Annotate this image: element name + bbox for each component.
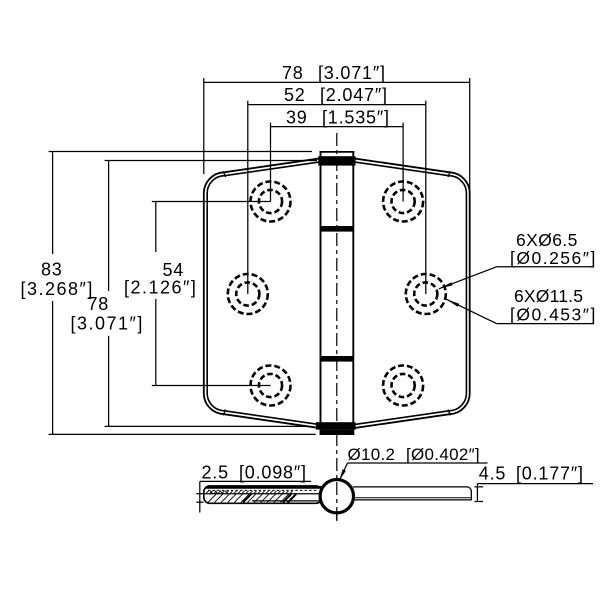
svg-text:78: 78 — [88, 294, 110, 314]
label diameter 10.2: arrow — [340, 469, 346, 480]
dimension 54: extension line bottom (to bottom-left hole) — [152, 385, 271, 387]
barrel bottom edge — [320, 433, 355, 435]
dimension 83: dimension line lower segment — [52, 301, 54, 434]
dimension 2.5: extension vertical — [199, 481, 201, 512]
svg-text:52: 52 — [284, 85, 306, 105]
side view left leaf hidden (dashed) line — [208, 489, 318, 491]
dimension 78 left: dimension line lower segment — [108, 336, 110, 426]
knuckle band bottom (narrow) — [321, 430, 354, 435]
hinge barrel left side — [320, 152, 322, 435]
hinge barrel right side — [352, 152, 354, 435]
svg-text:[Ø0.453″]: [Ø0.453″] — [510, 305, 597, 325]
dimension 83: dimension line upper segment — [52, 152, 54, 255]
label diameter 10.2: leader line — [340, 463, 348, 480]
svg-text:[0.177″]: [0.177″] — [516, 463, 584, 483]
svg-text:[3.268″]: [3.268″] — [21, 279, 94, 299]
hole top-left inner circle — [259, 190, 282, 213]
hole top-left outer circle — [251, 182, 291, 222]
label 6X diameter 11.5: underline — [497, 323, 595, 325]
dimension 2.5: underline — [200, 480, 311, 482]
dimension 83: extension line bottom — [49, 433, 316, 435]
label 6X diameter 6.5: underline — [497, 266, 595, 268]
side view right leaf — [353, 487, 471, 500]
side view left leaf section outline — [204, 486, 322, 503]
label 6X diameter 6.5: leader line — [439, 267, 497, 289]
hinge leaf outline outer right — [353, 158, 469, 428]
svg-text:[0.098″]: [0.098″] — [239, 462, 307, 482]
dimension 4.5: extension vertical — [476, 484, 478, 502]
svg-text:[3.071″]: [3.071″] — [318, 63, 386, 83]
pin centerline — [336, 133, 338, 523]
svg-text:[3.071″]: [3.071″] — [71, 313, 144, 333]
svg-text:6XØ11.5: 6XØ11.5 — [514, 286, 583, 306]
knuckle band bottom (wide) — [316, 422, 356, 429]
dimension 54: extension line top (to top-left hole) — [152, 201, 271, 203]
label 6X diameter 6.5: arrow — [439, 282, 453, 289]
hole middle-left inner circle — [236, 282, 259, 305]
svg-text:4.5: 4.5 — [479, 463, 506, 483]
edge tick bottom-left — [223, 410, 225, 416]
dimension 78 left: extension line top — [105, 160, 317, 162]
hinge leaf outline outer left — [204, 158, 321, 428]
dimension 39: extension line right (to top-right hole) — [402, 123, 404, 202]
hole bottom-right outer circle — [383, 366, 423, 406]
dimension 4.5: underline — [477, 483, 593, 485]
left leaf section hatching — [206, 491, 296, 503]
label 6X diameter 11.5: arrow — [446, 299, 459, 307]
side view right leaf inner bottom line — [354, 497, 470, 499]
svg-text:[2.047″]: [2.047″] — [320, 85, 388, 105]
dimension 78 left: extension line bottom — [105, 425, 310, 427]
dimension 4.5: top tick — [475, 486, 484, 488]
dimension 39: extension line left (to top-left hole) — [270, 123, 272, 202]
side view left leaf inner bottom line — [252, 500, 321, 502]
dimension 52: extension line right (to middle-right hole) — [425, 101, 427, 294]
pin circle centerline redraw — [336, 482, 338, 521]
dimension 78 left: dimension line upper segment — [108, 161, 110, 292]
dimension 83: extension line top — [49, 151, 312, 153]
label 6X diameter 11.5: leader line — [446, 299, 497, 324]
svg-text:[1.535″]: [1.535″] — [322, 107, 390, 127]
hole middle-right outer circle — [406, 274, 446, 314]
svg-text:83: 83 — [41, 259, 63, 279]
knuckle band lower-middle — [321, 356, 354, 362]
dimension 2.5: top tick — [196, 493, 203, 495]
hole bottom-right inner circle — [392, 374, 415, 397]
barrel top edge — [320, 151, 355, 153]
dimension 4.5: bottom tick — [475, 501, 484, 503]
hole middle-right inner circle — [414, 282, 437, 305]
edge tick top-right — [448, 171, 450, 177]
dimension 2.5: bottom tick — [196, 501, 203, 503]
hole top-right outer circle — [383, 182, 423, 222]
svg-text:Ø10.2: Ø10.2 — [348, 445, 396, 464]
knuckle band top (wide) — [318, 156, 355, 165]
knuckle band upper-middle — [321, 226, 354, 232]
svg-text:[Ø0.256″]: [Ø0.256″] — [510, 248, 597, 268]
dimension 52: dimension line — [248, 104, 426, 106]
hole bottom-left outer circle — [251, 366, 291, 406]
dimension 54: dimension line upper segment — [155, 202, 157, 253]
dimension 39: dimension line — [271, 126, 404, 128]
hinge leaf outline inner left — [207, 162, 320, 425]
side view left leaf mid line — [204, 493, 321, 495]
hole top-right inner circle — [392, 190, 415, 213]
hole middle-left outer circle — [228, 274, 268, 314]
svg-text:39: 39 — [286, 107, 308, 127]
hinge leaf outline inner right — [353, 162, 466, 425]
svg-text:78: 78 — [282, 63, 304, 83]
edge tick top-left — [223, 171, 225, 177]
dimension 78 top: extension line right — [469, 78, 471, 196]
svg-text:[Ø0.402″]: [Ø0.402″] — [406, 445, 480, 464]
dimension 78 top: dimension line — [204, 81, 470, 83]
dimension 54: dimension line lower segment — [155, 299, 157, 386]
edge tick bottom-right — [448, 410, 450, 416]
svg-text:[2.126″]: [2.126″] — [124, 277, 197, 297]
hinge pin circle (side view) — [320, 480, 353, 513]
svg-text:6XØ6.5: 6XØ6.5 — [516, 230, 578, 250]
hole bottom-left inner circle — [259, 374, 282, 397]
svg-text:2.5: 2.5 — [202, 462, 229, 482]
label diameter 10.2: underline — [348, 462, 488, 464]
side view left leaf thick top edge — [206, 486, 322, 489]
dimension 52: extension line left (to middle-left hole) — [247, 101, 249, 294]
dimension 78 top: extension line left — [203, 78, 205, 174]
